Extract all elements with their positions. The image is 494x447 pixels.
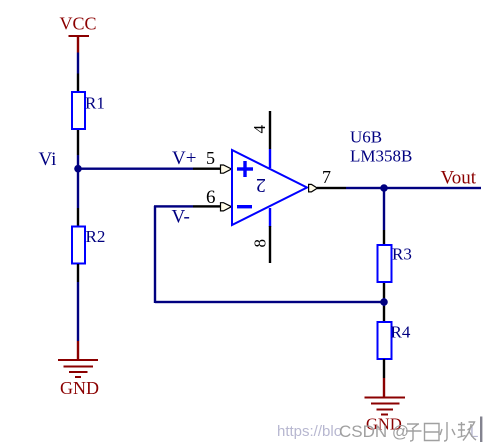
pin 7 output xyxy=(309,167,346,192)
svg-text:8: 8 xyxy=(251,239,270,248)
svg-text:2: 2 xyxy=(256,174,266,196)
svg-text:7: 7 xyxy=(322,167,331,187)
svg-text:V-: V- xyxy=(172,207,190,228)
svg-text:https://blo: https://blo xyxy=(277,423,342,440)
wire Vi to pin5 xyxy=(78,168,193,170)
pin 6 xyxy=(193,187,232,211)
watermark CJK glyphs xyxy=(406,422,476,441)
wire R1 to junction xyxy=(77,155,79,168)
wire Vi down xyxy=(77,168,79,208)
svg-text:LM358B: LM358B xyxy=(350,147,412,166)
pin 4 (V+) xyxy=(250,111,271,168)
svg-text:R1: R1 xyxy=(85,94,105,113)
pin R2.1 xyxy=(77,208,79,226)
pin 5 xyxy=(193,148,232,173)
svg-text:U6B: U6B xyxy=(350,128,382,147)
pin R1.1 xyxy=(77,74,79,92)
wire R3 to junction xyxy=(383,298,385,306)
wire R2 to GND xyxy=(77,282,79,341)
resistor R1 xyxy=(72,92,105,129)
pin R3.1 xyxy=(383,230,385,244)
svg-text:R2: R2 xyxy=(86,227,106,246)
wire feedback top xyxy=(154,205,193,207)
svg-text:R3: R3 xyxy=(392,245,412,264)
xiao xyxy=(440,422,455,441)
svg-text:Vout: Vout xyxy=(441,168,477,189)
jiu xyxy=(458,422,477,441)
zi xyxy=(406,424,422,441)
wire feedback bottom xyxy=(155,301,384,303)
junction output xyxy=(380,184,388,192)
ground GND right xyxy=(365,378,406,434)
op-amp plus input marking xyxy=(237,161,253,177)
junction Vi xyxy=(74,165,82,173)
wire feedback left vertical xyxy=(154,206,156,303)
svg-text:6: 6 xyxy=(206,187,216,208)
resistor R3 xyxy=(378,245,412,283)
pin R1.2 xyxy=(77,130,79,155)
ground GND left xyxy=(58,341,99,398)
pin R2.2 xyxy=(77,264,79,282)
pin R4.1 xyxy=(383,306,385,321)
op-amp minus input marking xyxy=(237,205,252,208)
svg-text:5: 5 xyxy=(206,148,215,168)
resistor R4 xyxy=(378,322,411,359)
pin 8 (V-) xyxy=(251,208,272,263)
svg-text:4: 4 xyxy=(250,125,269,134)
wire pin7 to Vout xyxy=(346,187,481,189)
wire VCC to R1 xyxy=(77,53,79,74)
pin R4.2 xyxy=(383,359,385,378)
op-amp U6B triangle xyxy=(232,150,307,225)
pin R3.2 xyxy=(383,283,385,298)
svg-text:R4: R4 xyxy=(391,323,411,342)
yue xyxy=(425,424,440,441)
power VCC xyxy=(60,14,97,53)
resistor R2 xyxy=(72,227,105,264)
svg-text:GND: GND xyxy=(60,378,99,398)
svg-text:VCC: VCC xyxy=(60,14,97,34)
svg-text:CSDN @: CSDN @ xyxy=(339,422,409,441)
svg-text:Vi: Vi xyxy=(39,149,57,170)
wire output down xyxy=(383,188,385,230)
junction feedback xyxy=(380,298,388,306)
svg-text:V+: V+ xyxy=(172,148,196,169)
